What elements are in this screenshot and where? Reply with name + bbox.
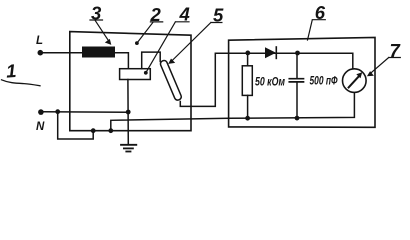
svg-text:500 пФ: 500 пФ <box>310 74 338 88</box>
svg-text:N: N <box>36 121 45 133</box>
wire capacitor bottom <box>296 82 298 118</box>
ground <box>121 145 136 152</box>
svg-text:1: 1 <box>5 60 17 82</box>
fuse element 3 (filled block) <box>82 47 115 58</box>
meter P (galvanometer 7) <box>343 69 367 93</box>
wire contact 5 bottom to box 6 top <box>180 53 352 106</box>
wire return from meter to box2 bottom <box>111 92 355 130</box>
junction node box2 bottom right <box>108 128 113 133</box>
enclosure box 6 <box>229 37 375 127</box>
junction node capacitor bottom <box>295 116 300 121</box>
label 2 <box>135 4 163 45</box>
label 1 <box>2 60 41 86</box>
label 5 <box>168 5 224 64</box>
enclosure box 2 <box>70 32 191 131</box>
wire coil 4 up to contact 5 <box>142 52 161 69</box>
wire N step to box2 bottom <box>58 112 93 139</box>
label 6 <box>308 2 326 40</box>
svg-text:L: L <box>36 35 43 47</box>
label 4 <box>144 4 190 75</box>
junction node diode cathode / capacitor <box>295 51 300 56</box>
terminal N <box>36 109 45 133</box>
capacitor C (500 pF) <box>289 79 303 82</box>
label 7 <box>367 40 402 76</box>
wire fuse to coil 4 <box>115 53 128 69</box>
wire ground riser <box>127 80 129 145</box>
wire L to fuse <box>43 52 83 54</box>
label 3 <box>90 2 111 45</box>
junction node resistor bottom <box>245 116 250 121</box>
junction node diode anode / resistor <box>245 51 250 56</box>
wire N bus <box>44 111 129 114</box>
wire capacitor top <box>296 53 298 78</box>
terminal L <box>36 35 43 56</box>
contact 5 (slanted capsule) <box>159 60 182 102</box>
resistor R (50 kOhm) <box>242 66 252 96</box>
junction node on N bus <box>55 109 60 114</box>
wire resistor top <box>247 53 249 66</box>
diode VD <box>265 47 276 58</box>
wire resistor bottom <box>247 95 249 118</box>
coil 4 (open box) <box>120 69 151 80</box>
svg-text:50 кОм: 50 кОм <box>255 75 285 89</box>
junction node N bus / ground riser <box>126 110 131 115</box>
junction node box2 bottom left <box>91 128 96 133</box>
